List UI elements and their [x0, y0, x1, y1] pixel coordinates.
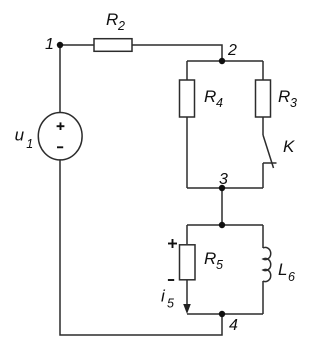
- wire node3 down to loop: [221, 188, 223, 225]
- wire R5 bottom with current arrow: [186, 280, 188, 306]
- polarity + of R5: [168, 239, 177, 248]
- svg-text:2: 2: [117, 19, 125, 33]
- node 4: [219, 311, 225, 317]
- svg-text:i: i: [161, 287, 166, 306]
- wire loop right to L6: [262, 225, 264, 248]
- voltage source u1: [38, 113, 82, 160]
- svg-text:5: 5: [167, 297, 174, 311]
- svg-text:5: 5: [216, 258, 223, 272]
- resistor R4: [180, 80, 195, 117]
- node 3: [219, 185, 225, 191]
- wire node4 to bottom return: [60, 160, 222, 336]
- wire R4 bottom to node3 rail: [186, 117, 188, 188]
- resistor R5: [180, 245, 196, 280]
- wire node1 to R2: [60, 44, 94, 46]
- wire loop top rail: [187, 224, 263, 226]
- node 2: [219, 58, 225, 64]
- wire R2 to node 2: [132, 45, 222, 61]
- svg-text:3: 3: [219, 171, 228, 188]
- svg-text:1: 1: [26, 137, 33, 151]
- wire left branch to R4: [186, 61, 188, 80]
- svg-text:4: 4: [216, 96, 223, 110]
- junction loop top: [219, 222, 225, 228]
- svg-text:L: L: [278, 260, 287, 279]
- svg-text:4: 4: [229, 317, 238, 334]
- svg-text:6: 6: [288, 270, 295, 284]
- polarity - of R5: [168, 279, 174, 281]
- svg-text:R: R: [204, 87, 216, 106]
- svg-text:R: R: [278, 87, 290, 106]
- wire switch bottom to node3 rail: [262, 163, 264, 188]
- wire L6 bottom: [262, 281, 264, 314]
- svg-text:R: R: [204, 249, 216, 268]
- resistor R2: [94, 39, 132, 52]
- inductor L6: [263, 247, 271, 281]
- svg-text:3: 3: [290, 96, 297, 110]
- current arrow head: [183, 304, 191, 314]
- svg-text:u: u: [15, 126, 25, 145]
- resistor R3: [256, 80, 271, 117]
- svg-text:2: 2: [227, 42, 237, 59]
- svg-text:1: 1: [45, 36, 54, 53]
- svg-text:K: K: [283, 137, 295, 156]
- wire right branch to R3: [262, 61, 264, 80]
- svg-text:R: R: [106, 10, 118, 29]
- wire loop bottom rail: [187, 313, 263, 315]
- wire loop left to R5: [186, 225, 188, 244]
- wire top rail node2: [187, 60, 263, 62]
- wire node3 rail: [187, 187, 263, 189]
- wire node1 down to source: [59, 45, 61, 113]
- wire R3 bottom to switch: [262, 117, 264, 135]
- node 1: [57, 42, 63, 48]
- switch K: [263, 135, 277, 168]
